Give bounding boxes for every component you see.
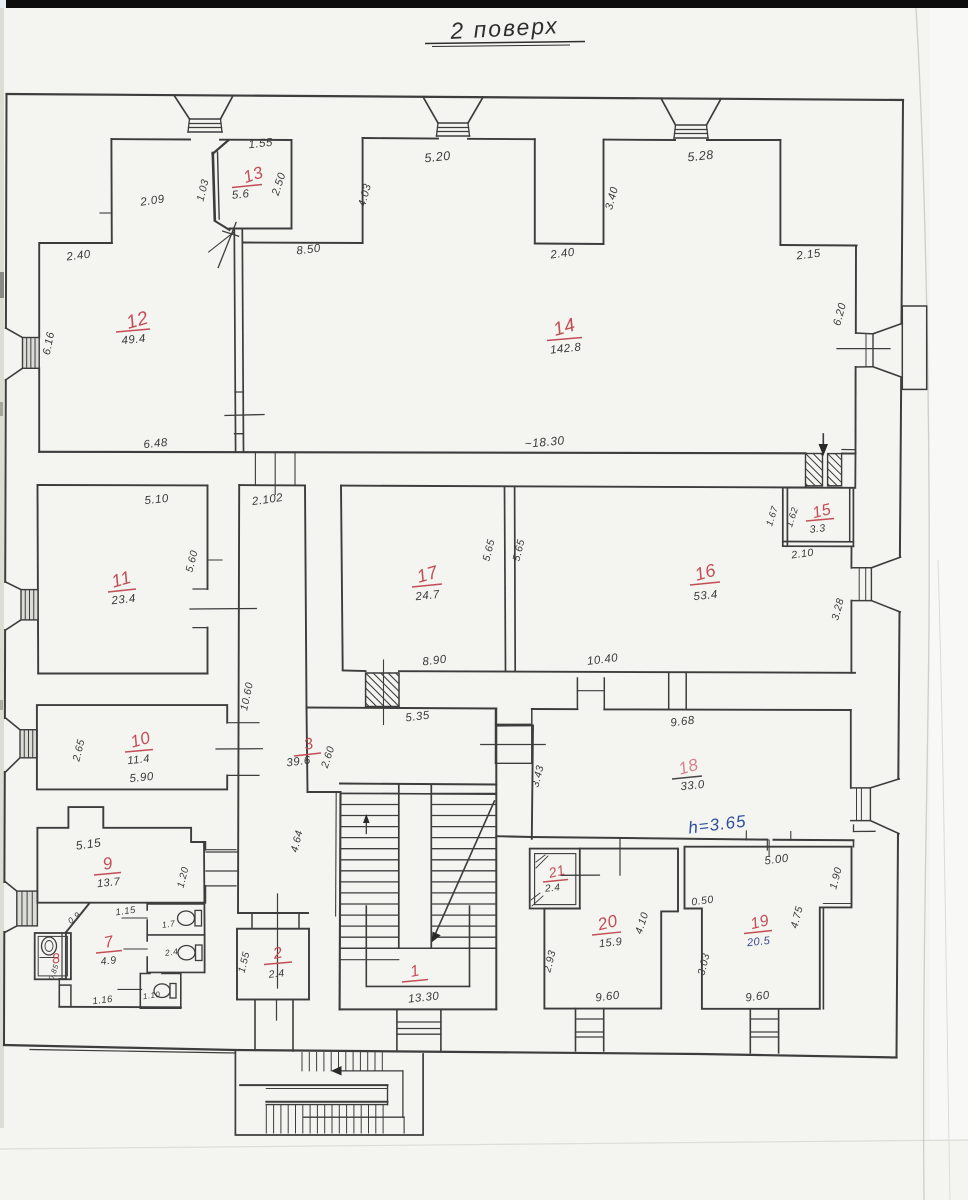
wall top inner room14 center [363,137,438,140]
wall exterior bottom double [30,1050,235,1054]
room11 left wall [37,485,40,674]
stair treads left flight [341,793,399,948]
wall step 8.50 [244,242,363,245]
bottom scan band [0,1140,968,1200]
window R2 sill box [851,567,871,569]
window L4 sill box [17,891,38,926]
svg-text:5.90: 5.90 [129,771,155,785]
room12 left wall [38,243,40,338]
wall room9-lobby right [203,842,206,935]
paper bottom edge faint line [0,1140,968,1149]
window R1 sill box [856,332,873,335]
svg-text:2.4: 2.4 [163,946,179,958]
window R1 glass mid line [837,348,890,350]
wall y708 room3 top [307,708,497,709]
external stair right inner wall [387,1085,389,1105]
room8 sink [42,937,57,955]
svg-text:2.4: 2.4 [267,967,285,981]
room19 notch wall [822,907,824,1008]
wall room14 alcove left [362,138,364,243]
external stair landing rails [240,1084,387,1086]
wall exterior left [5,94,8,328]
wall step 2.15 [780,244,856,247]
stair mid well walls [398,785,400,949]
door box rooms3-18 [495,710,497,764]
hatched block A [806,454,823,486]
room9 door ticks [205,849,236,851]
wall corridor-stair y792 [308,791,341,793]
room15 bottom double wall [783,541,854,543]
entrance arrow [822,434,824,452]
room10 door cross [216,748,262,750]
window T2 top splay [423,97,438,123]
external stair arrow [336,1070,403,1072]
window L3 splays [6,718,20,730]
room11 door ticks [193,588,208,590]
door jamb x620 [619,839,621,875]
corridor door room9 ticks [206,851,238,853]
wall long y838 main [531,837,768,840]
room17 bottom wall [343,670,366,673]
room8 door tick [40,957,58,959]
window T3 top splay [661,98,676,125]
wall room14 alcove right [534,139,536,243]
wall exterior bottom [4,1045,897,1058]
room10 door ticks [227,722,259,724]
external stair outer box [235,1050,423,1135]
wall y840 ticks up [745,831,747,840]
svg-text:13.7: 13.7 [96,876,121,890]
corridor right wall [305,485,307,707]
passage walls x577 [576,678,578,709]
external stair inner lines [303,1116,404,1118]
room13 chamfer TL [213,140,229,154]
wc stall3 box [140,974,181,1009]
svg-text:3.3: 3.3 [809,522,826,536]
svg-text:6.48: 6.48 [143,437,169,451]
door cross line [481,744,546,746]
room2 door walls above [251,913,253,929]
small closet below room8 [59,985,71,1007]
closet left wall [58,979,60,1007]
wall room12 top step [40,242,112,244]
wall inner right x855 segment [854,454,856,488]
room18 left wall x533 [532,726,533,839]
wall divider rooms12-14 [234,230,235,452]
room11 door cross [190,608,256,611]
paper edge curve right [916,8,929,1200]
hatched block B [828,454,842,486]
external stair lower treads [266,1105,383,1133]
svg-text:1.7: 1.7 [161,918,176,930]
wall step 2.40 [535,243,604,246]
left edge dark blobs [0,272,4,298]
wall stub right of y838 [853,840,855,846]
external stair upper treads [302,1053,382,1071]
window L1 sill box [23,338,40,369]
window T1 sill box [190,118,221,120]
wc stall1 toilet [195,910,202,926]
hatch dim tick [383,660,385,725]
svg-text:2.4: 2.4 [544,882,561,895]
corridor left wall [238,485,239,913]
passage walls x668 [668,673,670,710]
window L4 splays [6,882,17,891]
wall divider 17-16 double [505,487,506,672]
svg-text:15.9: 15.9 [598,936,623,950]
svg-text:33.0: 33.0 [680,779,706,793]
wall exterior right [902,100,904,324]
room13 door sill [223,231,239,236]
room8 box [35,933,71,979]
wall top inner room12-13 [111,138,190,140]
window L3 sill box [20,730,37,758]
wall room12 notch vertical [110,139,112,243]
room11 bottom wall [38,673,207,675]
room11 wall stub [208,559,223,561]
room20 outline [544,849,678,1009]
svg-text:5.28: 5.28 [687,148,715,165]
room13 bottom wall [230,228,292,230]
room15 right wall [849,488,851,542]
corridor ticks below y452 [254,452,256,485]
wall y708 room18 top L [532,708,578,710]
pointer line room21 [561,874,599,876]
wc stall2 toilet [196,945,203,961]
wall y486 rooms17-16 top [341,486,806,488]
room21 outer box [530,849,580,909]
stair diagonal arrow [433,801,494,939]
stair treads right flight [431,793,496,948]
corridor bottom wall [238,912,308,914]
room1 window bump [397,1009,441,1051]
window R3 splays [870,779,899,788]
window T1 top splay [174,95,190,119]
window R2 splays [871,557,900,568]
room7 bottom walls [59,1006,181,1009]
window R1 outer frame box [902,306,926,389]
room20 window bump [576,1009,604,1051]
wall long y838 left segment [496,835,530,838]
wc stall3 door line [118,988,142,990]
stairwell right wall [495,726,497,1010]
paper edge faint curve lower right [938,560,950,1200]
title underline [425,42,585,44]
room7-8 wall double [61,933,63,980]
svg-text:49.4: 49.4 [121,333,147,347]
room21 inner box [535,854,576,905]
hatched block room17 [366,673,399,707]
lobby wall x496 vertical [495,709,497,726]
room19 outline [685,847,852,1009]
svg-text:1.55: 1.55 [248,137,274,151]
room2 box [237,929,309,1000]
wc stall1 box [147,904,204,935]
svg-text:11.4: 11.4 [127,753,151,767]
wall exterior top [7,94,904,100]
wc stall1 door line [122,917,147,919]
room11 right wall [207,485,209,589]
window T3 sill box [676,124,707,126]
room7 chamfer [66,904,89,933]
scanner black strip top [6,0,968,8]
window R1 splays [873,323,902,333]
left paper edge strip [0,8,4,1128]
svg-text:4.9: 4.9 [100,954,117,968]
wall y486 corridor top [239,484,305,486]
room7 left wall [65,932,67,979]
wall room18 right [850,710,852,788]
wall room14 right alcove vert [603,140,605,244]
room13 chamfer BL [215,221,230,230]
wall y486 room11 top [38,484,208,486]
lobby wall y725 [496,725,533,727]
window L1 splays [6,328,23,338]
svg-text:53.4: 53.4 [693,589,719,603]
divider door head [235,433,244,435]
window L2 splays [6,582,21,590]
wall top inner room14 right [604,139,675,141]
right paper margin lighter [930,8,968,1200]
dim tick 5.00 [768,840,770,855]
room15 top wall [783,487,854,489]
tick dim 2.09 [100,212,112,214]
wall long y452 [39,452,805,454]
wc stall2 box [147,935,204,973]
svg-text:5.10: 5.10 [144,493,170,507]
stair landing lines [341,947,497,949]
wall inner right vertical [855,246,857,334]
door tick in y838 [766,840,768,850]
stair up arrow small [365,818,367,834]
divider door cross [225,415,264,416]
window L2 sill box [21,590,38,620]
room19 notch double bottom [823,903,851,905]
stairwell left wall [339,792,342,1009]
room21 corner scribbles [536,855,545,862]
room16 bottom wall [399,671,855,673]
room17 left wall [341,486,343,670]
stair U landing walls [365,906,367,986]
exit passage below room2 [254,1000,256,1051]
svg-text:5.20: 5.20 [424,149,452,166]
window R3 sill box [851,787,871,789]
room9 outline [37,807,205,903]
wall inner right x851 [850,546,852,567]
window T2 sill box [438,122,468,124]
wall room14 topright vert [779,140,781,245]
stairwell bottom wall [340,1008,497,1010]
room13 door swing [218,223,236,268]
stairwell top walls [340,784,496,785]
room15 left double wall [782,488,784,547]
wc stall3 toilet [170,984,176,999]
room13 left wall thick [213,153,215,220]
wall y708 room18 top R [604,708,851,711]
svg-text:5.6: 5.6 [231,188,250,202]
room10 box [37,705,227,789]
room2 dim line vertical [277,894,279,988]
room19 window bump [750,1009,778,1053]
wc stall2 door line [124,948,147,950]
room13 right wall [291,140,293,229]
